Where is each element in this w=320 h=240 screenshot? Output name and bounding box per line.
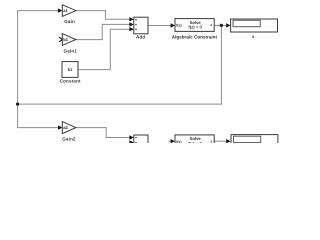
svg-text:Constant: Constant [60, 79, 81, 84]
node junction on feedback trunk [16, 103, 19, 106]
svg-text:a2: a2 [63, 125, 68, 130]
display x [231, 19, 278, 39]
svg-text:f(z): f(z) [176, 140, 182, 143]
svg-text:Gain2: Gain2 [62, 137, 76, 142]
wire arrow into Add2 input 2 [129, 140, 133, 144]
svg-text:Algebraic Constraint: Algebraic Constraint [172, 35, 218, 40]
gain Gain1 b1 with unconnected input port [59, 34, 77, 54]
gain Gain2 a2 [62, 122, 76, 142]
wire Add output to Algebraic Constraint input [148, 25, 171, 27]
svg-text:b1: b1 [63, 37, 69, 42]
wire Gain output to Add input 1 [76, 11, 130, 20]
gain Gain a1 [62, 5, 76, 24]
svg-text:z: z [210, 140, 212, 144]
svg-text:f(z) = 0: f(z) = 0 [188, 25, 202, 30]
wire Algebraic Constraint1 z output to Display x1 [214, 140, 226, 142]
svg-text:a1: a1 [63, 8, 68, 13]
svg-text:Gain1: Gain1 [64, 49, 78, 54]
svg-text:Add: Add [136, 35, 145, 40]
wire arrow into Algebraic Constraint1 input [169, 140, 171, 142]
svg-text:k1: k1 [68, 67, 73, 72]
node junction at z output [220, 24, 223, 27]
wire Algebraic Constraint z output to Display x [214, 24, 226, 26]
svg-text:f(z): f(z) [176, 24, 182, 28]
wire Constant output to Add input 3 [78, 29, 130, 69]
wire Gain2 output to Add2 input 1 [76, 128, 130, 138]
summing block Add [134, 17, 148, 39]
wire Gain1 output to Add input 2 [76, 24, 130, 39]
summing block Add2 [134, 135, 148, 152]
wire z1 feedback branch down to Gain2 [18, 104, 58, 128]
svg-text:f(z) = 0: f(z) = 0 [188, 141, 202, 143]
wire z1 feedback trunk from constraint output down and around to Gain [18, 11, 222, 105]
svg-text:z: z [210, 23, 212, 27]
algebraic constraint U2 [175, 135, 214, 148]
display x1 [231, 135, 278, 148]
constant k1 [60, 62, 81, 84]
wire arrow into Gain [58, 8, 62, 12]
svg-text:Gain: Gain [64, 19, 75, 24]
svg-text:x: x [252, 34, 255, 39]
algebraic constraint U1 [172, 19, 218, 40]
wire arrow into Gain2 [58, 125, 62, 129]
